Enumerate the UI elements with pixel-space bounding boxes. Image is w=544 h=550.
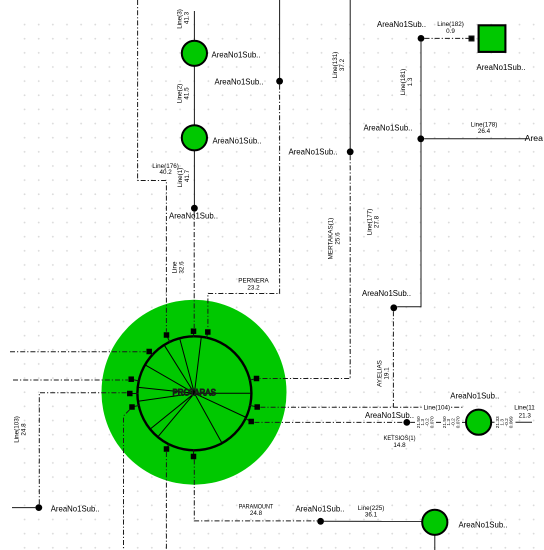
- stub S10: [245, 418, 252, 421]
- square S9: [254, 404, 260, 410]
- svg-text:32.6: 32.6: [179, 261, 186, 274]
- square S1: [191, 328, 197, 334]
- bus circle 3 (Line 104): [466, 410, 491, 435]
- svg-text:37.2: 37.2: [339, 58, 346, 71]
- svg-text:AreaNo1Sub..: AreaNo1Sub..: [450, 391, 499, 401]
- wire PARAMOUNT feeder: [194, 460, 317, 521]
- node Line(177): [390, 304, 397, 311]
- wire S7 feeder: [124, 410, 130, 550]
- wire Line(176) feeder: [138, 0, 167, 332]
- svg-text:Line(11: Line(11: [514, 405, 535, 412]
- square S2: [205, 329, 211, 335]
- wire PERNERA feeder: [208, 85, 280, 329]
- svg-text:Line(177): Line(177): [367, 209, 374, 236]
- node Line(103): [35, 504, 42, 511]
- bus circle 1: [182, 41, 207, 66]
- svg-text:0.9: 0.9: [446, 28, 455, 35]
- wire Line(177) elbow: [397, 142, 421, 307]
- stub S8: [249, 379, 257, 381]
- svg-text:40.2: 40.2: [159, 169, 172, 176]
- square S4: [146, 349, 152, 355]
- svg-text:AreaNo1Sub..: AreaNo1Sub..: [213, 136, 262, 146]
- svg-text:1.3: 1.3: [407, 77, 414, 86]
- wire below bottom-right circle: [434, 533, 436, 550]
- svg-text:14.8: 14.8: [393, 442, 406, 449]
- stub S7: [132, 405, 140, 407]
- svg-text:AreaNo1Sub..: AreaNo1Sub..: [289, 147, 338, 157]
- wire Line(3) top: [193, 11, 195, 41]
- svg-text:Line(2): Line(2): [177, 84, 184, 104]
- svg-text:KETSIOS(1): KETSIOS(1): [384, 435, 416, 442]
- wire S5 feeder: [13, 379, 128, 381]
- small black square before green square: [469, 36, 474, 41]
- wire KETSIOS: [254, 421, 403, 423]
- wire Line(225): [324, 520, 424, 522]
- svg-text:Line(103): Line(103): [14, 416, 21, 443]
- svg-text:AreaNo1Sub..: AreaNo1Sub..: [459, 520, 508, 530]
- wire Line(11x) right of circle: [492, 421, 532, 423]
- svg-text:0.069: 0.069: [509, 416, 515, 428]
- svg-text:19.1: 19.1: [384, 367, 391, 380]
- svg-text:Line(181): Line(181): [400, 69, 407, 96]
- bus circle 2: [182, 125, 207, 150]
- svg-text:AY.ELIAS: AY.ELIAS: [377, 360, 384, 387]
- svg-text:AreaNo1Sub..: AreaNo1Sub..: [365, 410, 414, 420]
- svg-text:PERNERA: PERNERA: [238, 277, 269, 284]
- square S10: [248, 419, 254, 425]
- svg-text:41.7: 41.7: [184, 169, 191, 182]
- stub S3: [167, 335, 171, 343]
- svg-text:AreaNo1Sub..: AreaNo1Sub..: [296, 504, 345, 514]
- stub S12: [193, 449, 195, 456]
- svg-text:Area: Area: [525, 133, 544, 143]
- wire Line(181): [420, 42, 422, 136]
- bus circle 4 (Line 225): [422, 510, 447, 535]
- svg-text:AreaNo1Sub..: AreaNo1Sub..: [212, 49, 261, 59]
- stub S2: [206, 332, 207, 339]
- node Line(131): [347, 148, 354, 155]
- stub S11: [167, 443, 170, 449]
- svg-text:AreaNo1Sub..: AreaNo1Sub..: [364, 122, 413, 132]
- square S12: [191, 454, 197, 460]
- wire Line(178): [424, 138, 528, 140]
- square S7: [129, 404, 135, 410]
- svg-text:AreaNo1Sub..: AreaNo1Sub..: [51, 503, 100, 513]
- wire Line(104) node to circle: [410, 421, 465, 423]
- node KETSIOS: [403, 419, 410, 426]
- wire MERTAKAS feeder: [260, 155, 351, 378]
- svg-text:24.8: 24.8: [250, 510, 263, 517]
- stub S1: [193, 331, 195, 337]
- stubs and connection squares: [130, 331, 257, 456]
- svg-text:26.4: 26.4: [478, 128, 491, 135]
- node Line(178): [417, 135, 424, 142]
- wire PERNERA head: [279, 0, 281, 78]
- square S6: [127, 391, 133, 397]
- svg-text:Line(182): Line(182): [437, 21, 464, 28]
- svg-text:23.2: 23.2: [247, 284, 260, 291]
- svg-text:0.070: 0.070: [455, 416, 461, 428]
- node Line(225): [317, 518, 324, 525]
- square S8: [254, 376, 260, 382]
- svg-text:Line(131): Line(131): [332, 52, 339, 79]
- svg-text:0.070: 0.070: [429, 416, 435, 428]
- stub S6: [130, 393, 139, 395]
- svg-text:41.3: 41.3: [184, 11, 191, 24]
- node AreaNo1Sub (194,208): [191, 205, 198, 212]
- svg-text:PROTARAS: PROTARAS: [172, 388, 216, 398]
- svg-text:Line(1): Line(1): [177, 168, 184, 188]
- node Line(182): [418, 35, 425, 42]
- green square top right: [479, 25, 506, 52]
- wire into node8 bottom-left: [12, 507, 35, 509]
- svg-text:41.5: 41.5: [184, 87, 191, 100]
- svg-text:27.8: 27.8: [374, 215, 381, 228]
- svg-text:36.1: 36.1: [365, 512, 378, 519]
- svg-text:AreaNo1Sub..: AreaNo1Sub..: [215, 77, 264, 87]
- svg-text:Line(3): Line(3): [177, 9, 184, 29]
- PROTARAS station big circle: [102, 300, 287, 485]
- tiny measurement clusters: [416, 416, 515, 428]
- svg-text:24.8: 24.8: [21, 423, 28, 436]
- stub S5: [131, 379, 140, 381]
- wire Line(182): [425, 37, 469, 39]
- ring spokes: [139, 338, 251, 443]
- wire Line(131): [349, 0, 351, 149]
- svg-text:21.3: 21.3: [519, 412, 532, 419]
- square S5: [128, 376, 134, 382]
- wire Line(103) feeder: [39, 393, 126, 504]
- svg-text:AreaNo1Sub..: AreaNo1Sub..: [477, 62, 526, 72]
- wire S9 feeder: [260, 406, 463, 408]
- stub S9: [249, 405, 257, 407]
- stub S4: [149, 352, 153, 356]
- svg-text:AreaNo1Sub..: AreaNo1Sub..: [362, 288, 411, 298]
- svg-text:AreaNo1Sub..: AreaNo1Sub..: [377, 19, 426, 29]
- svg-text:Line: Line: [172, 261, 179, 273]
- wire Line 32.6 (node1 to S1): [193, 212, 195, 328]
- wire Line(1): [193, 151, 195, 206]
- wire S11 feeder: [165, 452, 167, 550]
- svg-text:MERTAKAS(1): MERTAKAS(1): [328, 218, 335, 260]
- square S11: [164, 446, 170, 452]
- PROTARAS inner ring: [137, 336, 251, 450]
- svg-text:AreaNo1Sub..: AreaNo1Sub..: [169, 210, 218, 220]
- node PERNERA head: [276, 78, 283, 85]
- svg-text:Line(104): Line(104): [423, 405, 450, 412]
- square S3: [164, 332, 170, 338]
- wire Line(2): [193, 66, 195, 125]
- svg-text:25.6: 25.6: [335, 232, 342, 245]
- wire AY.ELIAS: [392, 311, 394, 407]
- wire S4 feeder: [10, 351, 146, 353]
